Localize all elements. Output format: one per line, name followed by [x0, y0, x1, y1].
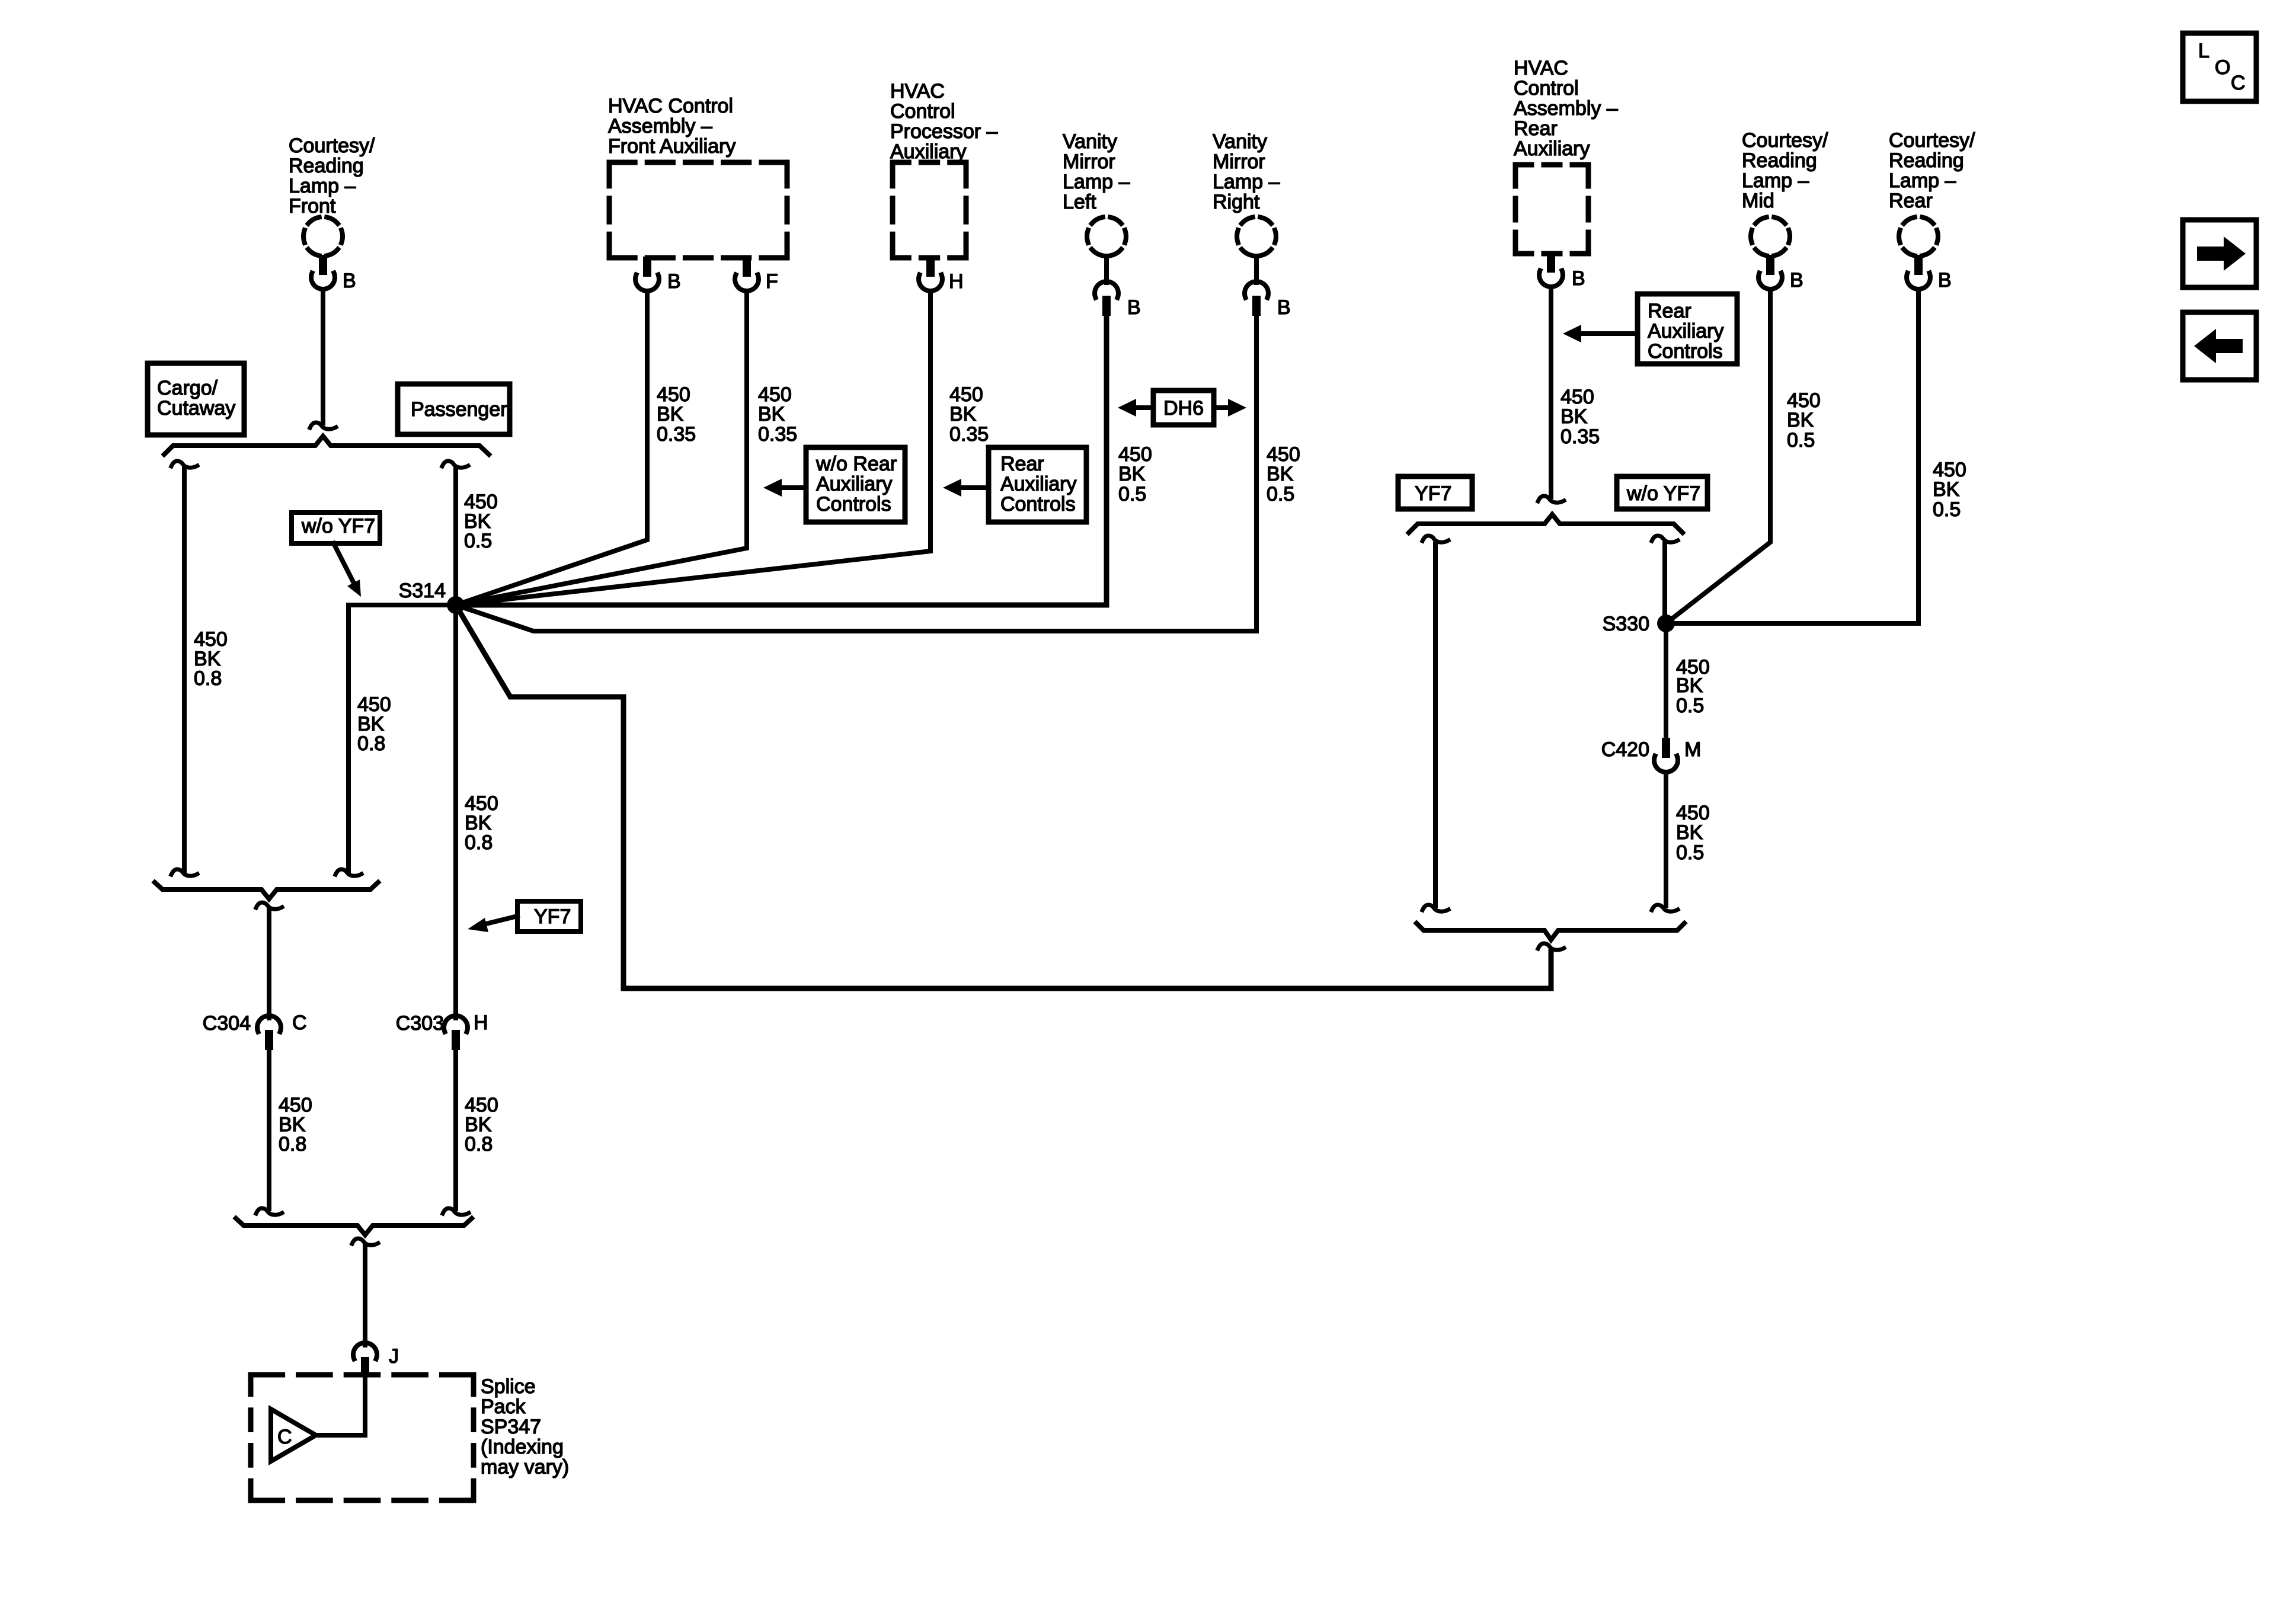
merge brace (Cargo / w-o YF7 branches rejoin) [155, 882, 378, 899]
svg-text:Pack: Pack [481, 1395, 526, 1418]
svg-text:Front: Front [289, 195, 336, 217]
svg-text:0.8: 0.8 [194, 667, 222, 690]
break symbol at top of YF7 branch wire [1422, 536, 1448, 542]
wire label 450 BK 0.8 (Cargo branch) [194, 628, 228, 690]
svg-text:Lamp –: Lamp – [1063, 171, 1130, 193]
ground terminal triangle C inside splice pack [271, 1409, 316, 1461]
svg-text:O: O [2215, 56, 2230, 79]
wire from C303 down to lower brace [453, 1051, 458, 1209]
svg-text:BK: BK [758, 403, 785, 425]
svg-text:B: B [343, 270, 356, 292]
label Courtesy/Reading Lamp - Rear [1889, 129, 1975, 212]
svg-text:BK: BK [1560, 405, 1588, 428]
svg-text:BK: BK [657, 403, 684, 425]
break symbol at end of HVAC rear wire [1538, 496, 1564, 502]
svg-text:0.8: 0.8 [465, 1133, 493, 1156]
svg-text:Splice: Splice [481, 1375, 536, 1398]
svg-text:C304: C304 [203, 1012, 251, 1035]
break symbol at bottom of w/o YF7 branch wire [335, 869, 362, 876]
connector pin B of mid lamp [1758, 255, 1782, 289]
wire from merge brace down to connector J [363, 1247, 367, 1345]
wire from vanity right pin B to S314 [456, 318, 1256, 631]
svg-text:Courtesy/: Courtesy/ [1889, 129, 1975, 152]
connector pin H of HVAC processor [919, 257, 942, 291]
svg-text:Controls: Controls [1000, 493, 1076, 516]
break symbol at bottom of C304 wire [256, 1208, 282, 1215]
wire from vanity right lamp to connector [1254, 256, 1259, 283]
right arrow legend box [2183, 220, 2256, 287]
svg-text:Auxiliary: Auxiliary [1648, 320, 1723, 343]
wire label 450 BK 0.35 (pin F wire) [758, 383, 797, 446]
wire from vanity left lamp to connector [1104, 256, 1109, 283]
option tag box Rear Auxiliary Controls (middle) [989, 447, 1086, 522]
lamp Courtesy/Reading Lamp - Mid (dashed circle) [1751, 217, 1790, 256]
break symbol at bottom of YF7 branch wire [1422, 905, 1448, 911]
label Splice Pack SP347 (Indexing may vary) [481, 1375, 569, 1478]
splice dot S314 [447, 596, 465, 614]
svg-text:Reading: Reading [1889, 149, 1964, 172]
wire S314 left branch (w/o YF7) going down [348, 605, 456, 870]
svg-text:0.5: 0.5 [1676, 694, 1704, 717]
break symbol at bottom of C303 wire [443, 1208, 469, 1215]
wire Passenger branch down to splice S314 [453, 469, 458, 605]
svg-text:0.35: 0.35 [758, 423, 797, 446]
svg-text:Vanity: Vanity [1213, 130, 1267, 153]
svg-text:HVAC: HVAC [890, 80, 945, 103]
svg-text:Lamp –: Lamp – [1889, 169, 1956, 192]
label HVAC Control Assembly - Rear Auxiliary [1514, 57, 1618, 160]
svg-text:0.5: 0.5 [1787, 429, 1815, 452]
svg-text:Lamp –: Lamp – [289, 175, 356, 197]
connector C303 pin H [444, 1016, 468, 1050]
svg-text:0.35: 0.35 [949, 423, 989, 446]
svg-text:Cutaway: Cutaway [157, 397, 235, 420]
svg-text:Reading: Reading [289, 155, 364, 177]
svg-text:0.5: 0.5 [1267, 483, 1294, 505]
svg-text:w/o Rear: w/o Rear [816, 453, 897, 475]
wire from S314 down to C303 [453, 605, 458, 1018]
label HVAC Control Processor - Auxiliary [890, 80, 997, 163]
svg-text:Courtesy/: Courtesy/ [289, 135, 375, 157]
arrow from YF7 tag to C303 wire [468, 916, 517, 932]
wire label 450 BK 0.5 (Passenger branch) [464, 491, 498, 552]
svg-text:Right: Right [1213, 191, 1260, 213]
connector pin B of vanity right lamp [1245, 281, 1268, 316]
connector pin B of HVAC front assembly [635, 257, 659, 291]
splice pack SP347 (dashed box) [251, 1375, 474, 1500]
wire from front lamp pin B down to options brace [321, 292, 325, 423]
svg-text:Courtesy/: Courtesy/ [1742, 129, 1828, 152]
svg-text:J: J [389, 1345, 399, 1368]
option tag box YF7 (left circuit) [517, 901, 581, 932]
right arrow from DH6 tag [1214, 399, 1246, 417]
svg-text:DH6: DH6 [1163, 397, 1204, 420]
option box w/o YF7 [1617, 476, 1707, 509]
svg-text:0.5: 0.5 [1933, 498, 1961, 521]
wire from C304 down to lower brace [267, 1051, 271, 1209]
left arrow from DH6 tag [1118, 399, 1153, 417]
svg-text:HVAC: HVAC [1514, 57, 1568, 79]
wire label 450 BK 0.35 (pin H wire) [949, 383, 989, 446]
svg-text:BK: BK [1267, 463, 1294, 485]
svg-text:Rear: Rear [1889, 190, 1933, 212]
svg-text:Rear: Rear [1000, 453, 1044, 475]
connector pin B of HVAC rear assembly [1539, 252, 1563, 287]
arrow from w/o YF7 tag to wire [334, 543, 361, 597]
component HVAC Control Assembly - Rear Auxiliary (dashed box) [1515, 165, 1588, 254]
svg-text:0.5: 0.5 [1676, 841, 1704, 864]
svg-text:w/o YF7: w/o YF7 [301, 515, 375, 537]
wire w/o YF7 branch down to S330 [1662, 544, 1667, 623]
svg-text:Auxiliary: Auxiliary [1514, 137, 1590, 160]
wire from pin F to S314 [456, 293, 747, 605]
wire label 450 BK 0.8 (S314 to C303) [465, 792, 498, 854]
LOC legend box [2183, 33, 2256, 101]
wire label 450 BK 0.5 (C420 to brace) [1676, 802, 1710, 864]
wire YF7 branch [1433, 544, 1438, 905]
connector C420 pin M [1654, 738, 1678, 772]
svg-text:Control: Control [1514, 77, 1579, 100]
break symbol at top of Passenger branch wire [442, 461, 468, 468]
arrow from Rear Auxiliary Controls tag to pin H wire [943, 479, 989, 497]
svg-text:Processor –: Processor – [890, 120, 997, 143]
svg-text:B: B [1127, 296, 1141, 319]
svg-text:Mid: Mid [1742, 190, 1774, 212]
svg-text:Vanity: Vanity [1063, 130, 1117, 153]
svg-text:Mirror: Mirror [1213, 151, 1265, 173]
wire from merge brace down to C304 [267, 911, 271, 1018]
svg-text:BK: BK [1676, 674, 1703, 697]
connector pin F of HVAC front assembly [735, 257, 759, 291]
wire label 450 BK 0.5 (mid lamp wire) [1787, 389, 1821, 452]
svg-text:0.5: 0.5 [1118, 483, 1146, 505]
svg-text:Assembly –: Assembly – [1514, 97, 1618, 120]
svg-text:B: B [1790, 269, 1803, 292]
wire from rear merge brace to S314 [456, 605, 1551, 988]
svg-text:0.8: 0.8 [279, 1133, 306, 1156]
option tag box w/o Rear Auxiliary Controls [806, 447, 905, 522]
wire label 450 BK 0.5 (vanity right wire) [1267, 443, 1300, 505]
svg-text:Passenger: Passenger [411, 398, 507, 421]
option tag box w/o YF7 [292, 513, 380, 543]
svg-text:Cargo/: Cargo/ [157, 377, 218, 399]
option box YF7 [1398, 476, 1472, 509]
harness tag box DH6 [1153, 391, 1214, 425]
connector C304 pin C [257, 1016, 281, 1050]
arrow from Rear Auxiliary Controls tag to HVAC rear wire [1563, 325, 1638, 343]
svg-text:Mirror: Mirror [1063, 151, 1115, 173]
wire from rear lamp pin B to S330 [1666, 292, 1918, 623]
wire from pin H to S314 [456, 293, 930, 605]
wire label 450 BK 0.5 (rear lamp wire) [1933, 459, 1966, 521]
break symbol at top of w/o YF7 branch wire [1652, 536, 1678, 542]
svg-text:C: C [277, 1426, 292, 1448]
break symbol below merge brace [1538, 943, 1564, 950]
svg-text:Reading: Reading [1742, 149, 1817, 172]
options brace (Cargo/Cutaway vs Passenger) [164, 436, 489, 454]
left arrow legend box [2183, 312, 2256, 380]
lamp Vanity Mirror Lamp - Left (dashed circle) [1087, 217, 1126, 256]
svg-text:S330: S330 [1603, 613, 1649, 635]
svg-text:H: H [949, 270, 964, 293]
label HVAC Control Assembly - Front Auxiliary [608, 95, 736, 158]
svg-text:B: B [1277, 296, 1291, 319]
label Courtesy/Reading Lamp - Mid [1742, 129, 1828, 212]
wire Cargo/Cutaway branch (450 BK 0.8) [182, 469, 187, 870]
svg-text:L: L [2198, 40, 2209, 62]
option box Passenger [398, 384, 510, 434]
svg-text:0.8: 0.8 [465, 831, 493, 854]
svg-text:B: B [667, 270, 681, 293]
wire from HVAC rear pin B down to options brace [1549, 289, 1553, 497]
svg-text:Control: Control [890, 100, 955, 123]
svg-text:Front Auxiliary: Front Auxiliary [608, 135, 736, 158]
wire label 450 BK 0.35 (HVAC rear wire) [1560, 386, 1600, 448]
connector pin B of front lamp [311, 255, 335, 289]
svg-text:Left: Left [1063, 191, 1096, 213]
merge brace (YF7 / w-o YF7 rejoin) [1416, 923, 1684, 940]
wire from S330 down to C420 [1664, 623, 1668, 737]
svg-text:Auxiliary: Auxiliary [1000, 473, 1076, 495]
lamp Courtesy/Reading Lamp - Rear (dashed circle) [1899, 217, 1938, 256]
wire label 450 BK 0.5 (S330 to C420) [1676, 656, 1710, 717]
svg-text:Controls: Controls [1648, 340, 1723, 363]
wire from C420 down to brace [1664, 774, 1668, 905]
wire label 450 BK 0.8 (w/o YF7 branch) [357, 693, 391, 755]
svg-text:Lamp –: Lamp – [1742, 169, 1809, 192]
merge brace above splice pack [236, 1218, 472, 1235]
svg-text:YF7: YF7 [1415, 482, 1451, 505]
svg-text:Assembly –: Assembly – [608, 115, 712, 137]
label Courtesy/Reading Lamp - Front [289, 135, 375, 217]
label Vanity Mirror Lamp - Left [1063, 130, 1130, 213]
option tag box Rear Auxiliary Controls (right) [1638, 294, 1737, 364]
break symbol at bottom of C420 wire [1652, 905, 1678, 911]
svg-text:0.35: 0.35 [1560, 425, 1600, 448]
svg-text:C: C [292, 1012, 307, 1034]
connector pin B of rear lamp [1907, 255, 1930, 289]
lamp Vanity Mirror Lamp - Right (dashed circle) [1237, 217, 1276, 256]
label Vanity Mirror Lamp - Right [1213, 130, 1280, 213]
svg-text:BK: BK [1676, 821, 1703, 844]
svg-text:Controls: Controls [816, 493, 891, 516]
break symbol below merge brace [256, 902, 282, 909]
break symbol at bottom of Cargo/Cutaway branch wire [171, 869, 197, 876]
svg-text:BK: BK [949, 403, 977, 425]
break symbol at end of front lamp wire [310, 422, 336, 429]
svg-text:BK: BK [1933, 478, 1960, 501]
wire label 450 BK 0.8 (C304 wire) [279, 1094, 312, 1156]
wire from mid lamp pin B to S330 [1666, 292, 1770, 623]
svg-text:C: C [2231, 72, 2246, 94]
svg-text:HVAC Control: HVAC Control [608, 95, 733, 117]
break symbol below merge brace [352, 1238, 378, 1245]
svg-text:S314: S314 [399, 580, 446, 602]
svg-text:0.35: 0.35 [657, 423, 696, 446]
component HVAC Control Processor - Auxiliary (dashed box) [893, 162, 966, 258]
svg-text:Auxiliary: Auxiliary [816, 473, 892, 495]
wire label 450 BK 0.5 (vanity left wire) [1118, 443, 1152, 505]
svg-text:H: H [474, 1012, 488, 1034]
svg-text:SP347: SP347 [481, 1416, 541, 1438]
svg-text:F: F [766, 270, 778, 293]
connector pin J of splice pack [353, 1343, 377, 1377]
svg-text:B: B [1938, 269, 1952, 292]
arrow from w/o Rear Auxiliary Controls tag to pin F wire [763, 479, 806, 497]
svg-text:may vary): may vary) [481, 1456, 569, 1478]
svg-text:M: M [1684, 738, 1701, 761]
lamp Courtesy/Reading Lamp - Front (dashed circle) [303, 217, 343, 256]
connector pin B of vanity left lamp [1095, 281, 1118, 316]
svg-text:C420: C420 [1601, 738, 1649, 761]
svg-text:BK: BK [1118, 463, 1146, 485]
wire from pin B to S314 [456, 293, 647, 605]
component HVAC Control Assembly - Front Auxiliary (dashed box) [609, 162, 787, 258]
svg-text:Rear: Rear [1648, 300, 1691, 322]
svg-text:0.5: 0.5 [464, 530, 492, 552]
wire from pin J into splice pack [316, 1378, 365, 1435]
option box Cargo/Cutaway [148, 363, 244, 435]
svg-text:Rear: Rear [1514, 117, 1558, 140]
svg-text:(Indexing: (Indexing [481, 1436, 564, 1458]
wire label 450 BK 0.8 (C303 wire) [465, 1094, 498, 1156]
break symbol at top of Cargo/Cutaway branch wire [171, 461, 197, 468]
svg-text:Lamp –: Lamp – [1213, 171, 1280, 193]
svg-text:0.8: 0.8 [357, 732, 385, 755]
svg-text:B: B [1572, 267, 1585, 290]
wire from vanity left pin B to S314 [456, 318, 1107, 605]
svg-text:YF7: YF7 [534, 905, 571, 928]
splice dot S330 [1657, 614, 1675, 632]
svg-text:Auxiliary: Auxiliary [890, 140, 966, 163]
svg-text:BK: BK [1787, 409, 1814, 431]
wire label 450 BK 0.35 (pin B wire) [657, 383, 696, 446]
options brace (YF7 vs w/o YF7) [1409, 514, 1683, 533]
svg-text:w/o YF7: w/o YF7 [1626, 482, 1700, 505]
svg-text:C303: C303 [396, 1012, 444, 1035]
